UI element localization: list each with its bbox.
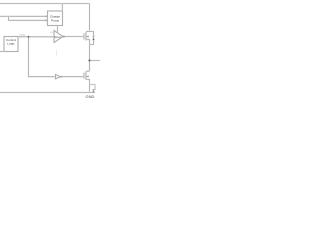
transistor Q2 channel bar [85,72,87,81]
wire diode D1 top connection [90,31,94,36]
box U2 Control Logic [4,37,18,52]
transistor Q1 gate bar [83,33,85,39]
diode D2 cathode bar [93,89,95,91]
wire bottom-left pin into control logic [0,51,4,53]
op-amp A2 low-side driver [56,75,61,79]
svg-text:Pump: Pump [51,18,59,22]
arrowhead charge pump input 2 [46,20,48,22]
arrowhead charge pump input 1 [46,16,48,18]
wire ground rail [0,92,95,94]
svg-text:GND: GND [86,94,95,99]
wire input branch to CP input 2 [9,16,47,20]
wire Q2 drain connection [86,70,90,72]
op-amp A1 high-side driver [54,31,63,43]
diode D1 body [92,37,94,40]
box U1 Charge Pump [48,11,63,26]
wire VIN top rail [0,3,90,5]
wire branch to low-side driver [29,37,56,77]
arrowhead high-side driver output [63,36,65,38]
svg-text:Logic: Logic [7,42,15,46]
transistor Q2 body arrow [87,76,89,78]
wire Q1 source to SW node [86,40,90,72]
wire Q1 drain connection [86,30,90,32]
wire top rail to Q1 drain [89,4,91,32]
transistor Q2 gate bar [83,73,85,79]
arrowhead low-side driver output [61,76,63,78]
svg-text:Driver: Driver [54,36,61,39]
wire diode D2 hook [90,85,96,90]
node SW junction dot [88,59,90,61]
wire diode D1 bottom connection [90,40,94,44]
node junction dot control output branch [28,36,30,38]
wire control logic output [18,36,54,38]
wire charge-pump supply drop [61,4,63,12]
label fragment near high-side driver [51,32,53,33]
transistor Q1 body arrow [87,36,89,38]
wire charge pump to high-side driver [57,26,59,33]
wire input line 1 [0,15,46,17]
diode D2 body [92,90,94,92]
svg-text:PWM: PWM [19,33,25,37]
wire Q2 source to ground [86,80,90,93]
transistor Q1 channel bar [85,32,87,41]
diode D1 cathode bar [93,36,95,38]
wire SW output pin [90,60,101,62]
wire high-side driver to Q1 gate [63,36,84,38]
wire low-side driver to Q2 gate [60,76,84,78]
wire faint stub below high-side driver [55,50,57,57]
